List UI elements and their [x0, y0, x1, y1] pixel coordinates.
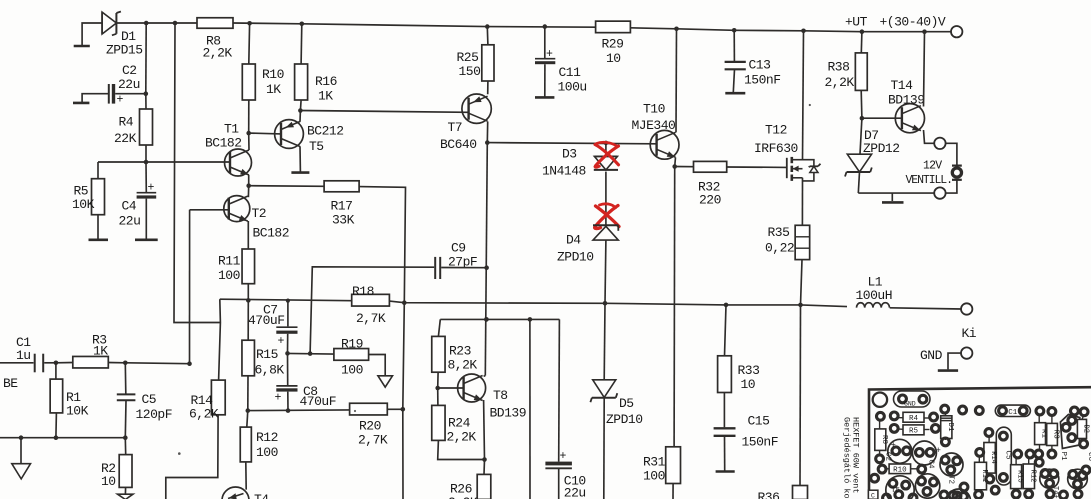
resistor R24 2,2K: [437, 388, 439, 405]
wire R25 to T7 emitter: [487, 81, 489, 94]
transistor T8 BD139: [458, 374, 486, 402]
svg-text:D3: D3: [562, 147, 577, 162]
svg-text:C9: C9: [451, 241, 466, 256]
resistor R15 6,8K: [247, 300, 249, 340]
wire R23 to T8 base node: [437, 372, 439, 388]
wire T7 collector down: [486, 122, 488, 143]
PCB pads bottom edge: [940, 491, 948, 499]
wire input BE: [0, 362, 34, 364]
capacitor C10 22u: [558, 319, 561, 461]
wire T2 base from left column: [190, 209, 229, 211]
svg-text:R11: R11: [218, 254, 241, 269]
PCB part T4: [1040, 469, 1059, 488]
wire T12 drain to rail: [803, 31, 804, 160]
wire R12 to T4: [245, 462, 247, 490]
wire C7 to node: [287, 334, 289, 354]
ground stub fan: [891, 193, 893, 201]
wire T2 emitter to R11: [247, 221, 249, 249]
svg-text:R20: R20: [359, 419, 381, 434]
wire T5 emitter up: [299, 111, 301, 122]
PCB part R14: [984, 443, 995, 474]
wire node to T14 base: [862, 117, 902, 119]
svg-text:10K: 10K: [72, 197, 95, 212]
svg-text:R36: R36: [758, 490, 780, 499]
wire T7 collector long vertical down to T8: [485, 143, 487, 376]
PCB part R3: [1047, 423, 1058, 445]
svg-text:150nF: 150nF: [742, 435, 779, 450]
wire D1 anode to stub: [82, 23, 102, 45]
wire C13 to stub: [733, 69, 734, 92]
svg-text:Gerjedésgátló kor: Gerjedésgátló kor: [842, 417, 852, 499]
terminal stub bar below C4: [135, 239, 158, 242]
svg-text:100: 100: [643, 469, 665, 484]
svg-text:C13: C13: [749, 58, 771, 73]
resistor R35 0,22: [795, 225, 810, 259]
svg-text:R4: R4: [119, 115, 134, 130]
svg-text:R15: R15: [256, 347, 278, 362]
svg-text:BD139: BD139: [888, 93, 925, 108]
fan symbol 12V VENTILL: [952, 168, 961, 177]
svg-text:100: 100: [341, 363, 363, 378]
wire R15 to lower node: [247, 376, 249, 411]
PCB part D1: [941, 416, 952, 439]
wire R14 bottom L-bend down: [166, 415, 218, 499]
mosfet T12 body diode: [803, 160, 814, 167]
svg-text:T8: T8: [493, 388, 508, 403]
svg-text:C4: C4: [122, 199, 137, 214]
wire R32 to T12 gate: [727, 166, 787, 168]
wire T12 source to R35: [801, 178, 803, 226]
wire L1 to Ki terminal: [890, 308, 961, 309]
wire node to T2 base column: [125, 362, 189, 365]
PCB pads top row: [941, 405, 949, 413]
PCB part C2: [888, 439, 912, 463]
PCB part R15: [1011, 465, 1022, 489]
terminal +UT output: [951, 26, 962, 37]
svg-text:GND: GND: [920, 348, 943, 363]
svg-text:2,2K: 2,2K: [825, 75, 855, 90]
svg-text:1K: 1K: [266, 82, 281, 97]
svg-text:2,2K: 2,2K: [448, 495, 478, 499]
svg-text:D4: D4: [566, 233, 581, 248]
wire D3 to D4: [605, 172, 607, 226]
svg-text:+: +: [891, 441, 896, 451]
PCB part R1: [1035, 423, 1046, 445]
PCB pads mid/right: [976, 449, 984, 457]
svg-text:6,8K: 6,8K: [255, 363, 285, 378]
svg-text:150: 150: [459, 64, 481, 79]
svg-text:BD139: BD139: [490, 406, 527, 421]
diode D4 ZPD10 (pointing up): [593, 224, 618, 226]
wire R3 to node: [108, 362, 125, 364]
wire ground line: [0, 437, 125, 439]
resistor R19 100: [334, 349, 369, 361]
PCB transistor right of T4: [1068, 469, 1088, 489]
svg-text:C1: C1: [1008, 409, 1018, 417]
svg-text:C5: C5: [1004, 451, 1012, 461]
svg-text:C2: C2: [122, 63, 137, 78]
wire C8 to lower line: [287, 392, 289, 411]
wire C10 down: [558, 468, 560, 499]
wire x530 column down: [529, 319, 531, 499]
capacitor C2 22u: [108, 84, 110, 104]
diode D5 ZPD10: [603, 303, 606, 380]
svg-text:R31: R31: [643, 455, 666, 470]
svg-text:R29: R29: [602, 37, 624, 52]
svg-text:2,2K: 2,2K: [447, 430, 477, 445]
diode D1 ZPD15: [101, 12, 103, 34]
svg-text:BC182: BC182: [253, 226, 290, 241]
svg-text:22u: 22u: [118, 77, 140, 92]
terminal stub bar below C13: [725, 92, 745, 95]
wire R31 down: [672, 484, 674, 499]
wire top supply rail: [116, 22, 197, 24]
svg-text:+: +: [275, 392, 282, 405]
svg-text:P1: P1: [1059, 452, 1067, 462]
ground triangle R19: [378, 376, 393, 387]
PCB part R4: [903, 412, 924, 422]
PCB part T2: [940, 453, 963, 476]
terminal stub bar below C15: [716, 470, 735, 473]
resistor R38 2,2K: [860, 32, 863, 53]
PCB part C4: [912, 441, 936, 465]
svg-text:ZPD15: ZPD15: [106, 43, 143, 58]
svg-text:D2: D2: [1082, 425, 1090, 433]
svg-text:R10: R10: [262, 67, 284, 82]
PCB part C box (partial): [868, 490, 878, 499]
svg-text:R8: R8: [880, 435, 888, 444]
transistor T10 MJE340: [650, 130, 679, 159]
resistor R17 33K: [324, 181, 359, 192]
svg-text:BC640: BC640: [440, 137, 477, 152]
transistor T5 BC212: [275, 120, 304, 149]
svg-text:R24: R24: [448, 416, 471, 431]
svg-text:2,7K: 2,7K: [358, 433, 388, 448]
wire C2 left plate to stub: [82, 94, 109, 103]
svg-text:R14: R14: [989, 451, 997, 464]
svg-text:R10: R10: [893, 466, 907, 474]
svg-text:T14: T14: [891, 78, 914, 93]
resistor R23 8,2K: [432, 336, 445, 372]
wire T8 collector up: [484, 375, 486, 378]
wire T8 emitter down: [483, 400, 486, 460]
svg-text:D1: D1: [946, 423, 954, 433]
capacitor C7 470uF: [287, 301, 289, 327]
resistor R33 10: [725, 305, 727, 356]
resistor R5 10K: [97, 162, 99, 179]
svg-text:BC182: BC182: [205, 136, 242, 151]
wire T1 emitter to node: [248, 175, 250, 186]
svg-text:ZPD10: ZPD10: [606, 412, 643, 427]
transistor T1 BC182: [225, 149, 252, 176]
svg-text:100: 100: [218, 268, 240, 283]
ground bar GND: [938, 369, 958, 372]
resistor R18 2,7K in bus: [352, 294, 390, 306]
speck: [354, 410, 356, 412]
diode D3 1N4148: [594, 155, 617, 157]
resistor R11 100: [242, 249, 255, 284]
wire T1 collector: [248, 133, 250, 150]
svg-text:R25: R25: [457, 50, 479, 65]
wire D5 down: [603, 398, 605, 499]
transistor T4 (partial): [222, 487, 249, 499]
wire GND terminal to ground: [948, 353, 961, 369]
wire R5 to stub: [97, 215, 99, 239]
wire left column T2 base down to input node: [189, 210, 191, 364]
svg-text:R16: R16: [315, 74, 337, 89]
wire node to T5 base: [249, 132, 281, 135]
svg-text:100uH: 100uH: [856, 288, 893, 303]
wire terminals to fan symbol: [946, 143, 957, 165]
wire R16 to T5 emitter node: [299, 100, 302, 111]
wire C2 right plate to node: [115, 93, 146, 95]
wire T14 collector to rail: [924, 32, 925, 107]
inductor L1 100uH: [857, 303, 890, 308]
capacitor C4 22u: [145, 162, 147, 192]
svg-text:IRF630: IRF630: [754, 141, 798, 156]
svg-text:T5: T5: [891, 487, 901, 495]
wire R11 to mid bus: [247, 284, 249, 301]
PCB transistor bottom middle (partial): [947, 489, 971, 499]
capacitor C8 470uF: [287, 353, 289, 385]
resistor R25 150: [486, 27, 489, 45]
resistor R31 100: [666, 447, 681, 484]
ground triangle input: [20, 438, 22, 464]
resistor R20 2,7K: [350, 403, 388, 415]
wire T2 collector: [247, 186, 249, 198]
wire D7 to bottom wire: [858, 172, 859, 193]
svg-text:MJE340: MJE340: [632, 118, 676, 133]
svg-text:C6: C6: [1086, 452, 1091, 462]
svg-text:T2: T2: [252, 206, 267, 221]
speck: [809, 104, 811, 106]
PCB part R11: [975, 462, 987, 490]
resistor R4 22K: [140, 109, 153, 145]
terminal fan -: [934, 187, 945, 198]
svg-text:T1: T1: [224, 122, 239, 137]
wire R10 to T1 collector node: [248, 100, 250, 133]
svg-text:8,2K: 8,2K: [448, 358, 478, 373]
svg-text:470uF: 470uF: [248, 313, 285, 328]
svg-text:2,2K: 2,2K: [203, 46, 233, 61]
resistor R16 1K: [300, 24, 303, 64]
wire C15 to stub: [724, 436, 726, 471]
svg-text:Ki: Ki: [962, 326, 977, 341]
svg-text:R35: R35: [768, 225, 790, 240]
svg-text:T4: T4: [254, 492, 269, 499]
wire C9 to T7 collector line: [441, 267, 486, 269]
svg-text:10K: 10K: [66, 404, 89, 419]
red cross mark over D4: [596, 206, 620, 227]
svg-text:R18: R18: [352, 284, 374, 299]
svg-text:10: 10: [101, 474, 116, 489]
wire T10 emitter column down to R31: [673, 167, 676, 447]
wire T5 emitter node to T7 base: [300, 111, 467, 113]
wire fan bottom: [858, 192, 934, 194]
capacitor C9 27pF: [434, 257, 436, 279]
wire R1 to ground line: [55, 413, 58, 438]
svg-text:+: +: [278, 335, 285, 348]
terminal stub bar left of D1: [74, 45, 90, 48]
wire C5 to ground line: [124, 400, 127, 437]
PCB part P1 trimmer: [1060, 415, 1079, 449]
svg-text:120pF: 120pF: [136, 407, 173, 422]
svg-text:0,22: 0,22: [765, 241, 794, 256]
resistor R10 1K: [248, 23, 251, 64]
wire R38 to D7/T14 node: [860, 90, 863, 118]
wire R4 to base node: [145, 145, 147, 162]
wire rail corner to R23: [438, 319, 440, 336]
svg-text:T7: T7: [448, 120, 463, 135]
speck: [178, 452, 181, 455]
PCB transistor below C4: [915, 474, 939, 498]
wire node to T1 base: [98, 161, 230, 163]
svg-text:R19: R19: [341, 337, 363, 352]
svg-text:22K: 22K: [114, 131, 137, 146]
terminal fan +: [934, 138, 945, 149]
diode D7 ZPD12: [860, 118, 862, 154]
wire T14 emitter to terminal: [924, 130, 935, 143]
svg-text:R33: R33: [738, 363, 760, 378]
svg-text:100: 100: [256, 445, 278, 460]
svg-text:1K: 1K: [318, 89, 333, 104]
PCB part R5: [903, 425, 924, 435]
resistor R14 6,2K: [211, 380, 225, 415]
transistor T14 BD139: [895, 104, 924, 133]
svg-text:R17: R17: [331, 199, 353, 214]
svg-text:R4: R4: [909, 415, 919, 423]
resistor R2 10: [124, 438, 126, 455]
ground triangle R2 (partial): [124, 487, 126, 494]
PCB pads left area: [890, 412, 898, 420]
resistor R3 1K: [56, 362, 73, 364]
wire bus left end to R14/top-rail branch: [219, 299, 221, 380]
terminal GND: [961, 347, 972, 358]
terminal stub bar below R5: [89, 239, 109, 242]
terminal stub bar below C11: [535, 96, 554, 99]
svg-text:10: 10: [606, 51, 621, 66]
svg-text:T10: T10: [643, 101, 665, 116]
wire R15/C8 lower line to R20: [248, 409, 350, 412]
svg-text:6,2K: 6,2K: [189, 406, 219, 421]
svg-text:33K: 33K: [332, 213, 355, 228]
terminal Ki: [961, 303, 972, 314]
svg-text:+: +: [936, 446, 941, 456]
svg-text:150nF: 150nF: [744, 73, 781, 88]
resistor R36 (partial): [799, 305, 802, 486]
svg-text:+UT: +UT: [845, 15, 868, 30]
PCB GND pad group: [894, 391, 931, 407]
svg-text:C: C: [871, 493, 875, 499]
svg-text:+: +: [560, 450, 567, 463]
svg-text:22u: 22u: [119, 214, 141, 229]
resistor R1 10K: [55, 363, 57, 379]
node junction dots on supply rail: [144, 21, 149, 26]
svg-text:+: +: [117, 94, 124, 107]
svg-text:D5: D5: [619, 396, 634, 411]
wire node to R19: [288, 352, 334, 355]
red cross mark over D3: [595, 145, 619, 165]
wire rail to C2 node to R4: [145, 23, 147, 94]
svg-text:R12: R12: [1028, 470, 1036, 483]
svg-text:BE: BE: [3, 376, 18, 391]
capacitor C13 150nF: [733, 30, 735, 61]
mosfet T12 IRF630: [786, 158, 788, 178]
wire T10 emitter to R32 node: [674, 157, 677, 166]
wire C9 branch from node up and right: [310, 267, 434, 354]
PCB part R10: [889, 464, 911, 474]
svg-text:2,7K: 2,7K: [356, 311, 386, 326]
wire T5 collector down to stub: [299, 146, 301, 172]
svg-text:VENTILL.: VENTILL.: [906, 174, 952, 187]
svg-text:R38: R38: [828, 60, 850, 75]
wire R24 bottom to emitter node: [438, 440, 485, 459]
resistor R32 220: [694, 161, 727, 172]
capacitor C1 1u: [34, 354, 36, 373]
svg-text:BC212: BC212: [307, 124, 344, 139]
svg-text:T2: T2: [947, 475, 955, 484]
wire R17 right end down long vertical: [359, 187, 405, 499]
wire R35 to mid bus: [801, 260, 803, 305]
svg-text:1u: 1u: [16, 348, 31, 363]
svg-text:C15: C15: [748, 414, 770, 429]
svg-text:R23: R23: [449, 344, 471, 359]
svg-text:T12: T12: [765, 122, 787, 137]
svg-text:R5: R5: [909, 427, 919, 435]
svg-text:ZPD12: ZPD12: [863, 141, 900, 156]
terminal stub bar left of C2: [73, 102, 89, 105]
PCB part C1: [995, 405, 1030, 416]
svg-text:+: +: [546, 48, 553, 61]
svg-text:GND: GND: [904, 401, 916, 408]
svg-text:+(30-40)V: +(30-40)V: [880, 15, 946, 30]
svg-text:C4: C4: [927, 460, 935, 470]
wire T7 collector node to T10 base: [487, 143, 656, 144]
capacitor C11 100u: [544, 27, 546, 58]
transistor T2 BC182: [224, 196, 250, 222]
wire R20 right to vertical: [387, 408, 403, 410]
svg-text:100u: 100u: [558, 80, 587, 95]
svg-text:220: 220: [699, 193, 721, 208]
svg-text:C5: C5: [142, 392, 157, 407]
capacitor C5 120pF: [124, 363, 127, 394]
PCB part R12: [1023, 464, 1034, 489]
wire D4 to mid bus: [604, 240, 607, 303]
svg-text:22u: 22u: [564, 486, 586, 499]
svg-text:+: +: [148, 182, 155, 195]
PCB board outline: [869, 387, 1091, 499]
capacitor C15 150nF: [723, 393, 725, 428]
transistor T7 BC640: [462, 94, 491, 123]
svg-text:12V: 12V: [923, 160, 942, 173]
wire mid output bus: [220, 299, 352, 301]
wire R19 to ground: [369, 355, 386, 376]
svg-text:R3: R3: [1052, 430, 1060, 440]
PCB part R8: [875, 429, 886, 451]
svg-text:1N4148: 1N4148: [542, 164, 586, 179]
svg-text:1K: 1K: [93, 344, 108, 359]
wire C4 to stub: [145, 199, 147, 239]
resistor R12 100: [247, 411, 248, 428]
wire node to R32: [675, 166, 694, 168]
svg-text:C11: C11: [559, 65, 582, 80]
PCB mounting hole: [873, 393, 887, 407]
PCB part C5: [996, 427, 1011, 485]
wire C11 to stub: [544, 64, 546, 96]
svg-text:10: 10: [741, 377, 756, 392]
terminal stub bar below T5: [291, 171, 309, 174]
wire C1 to node: [44, 362, 56, 364]
